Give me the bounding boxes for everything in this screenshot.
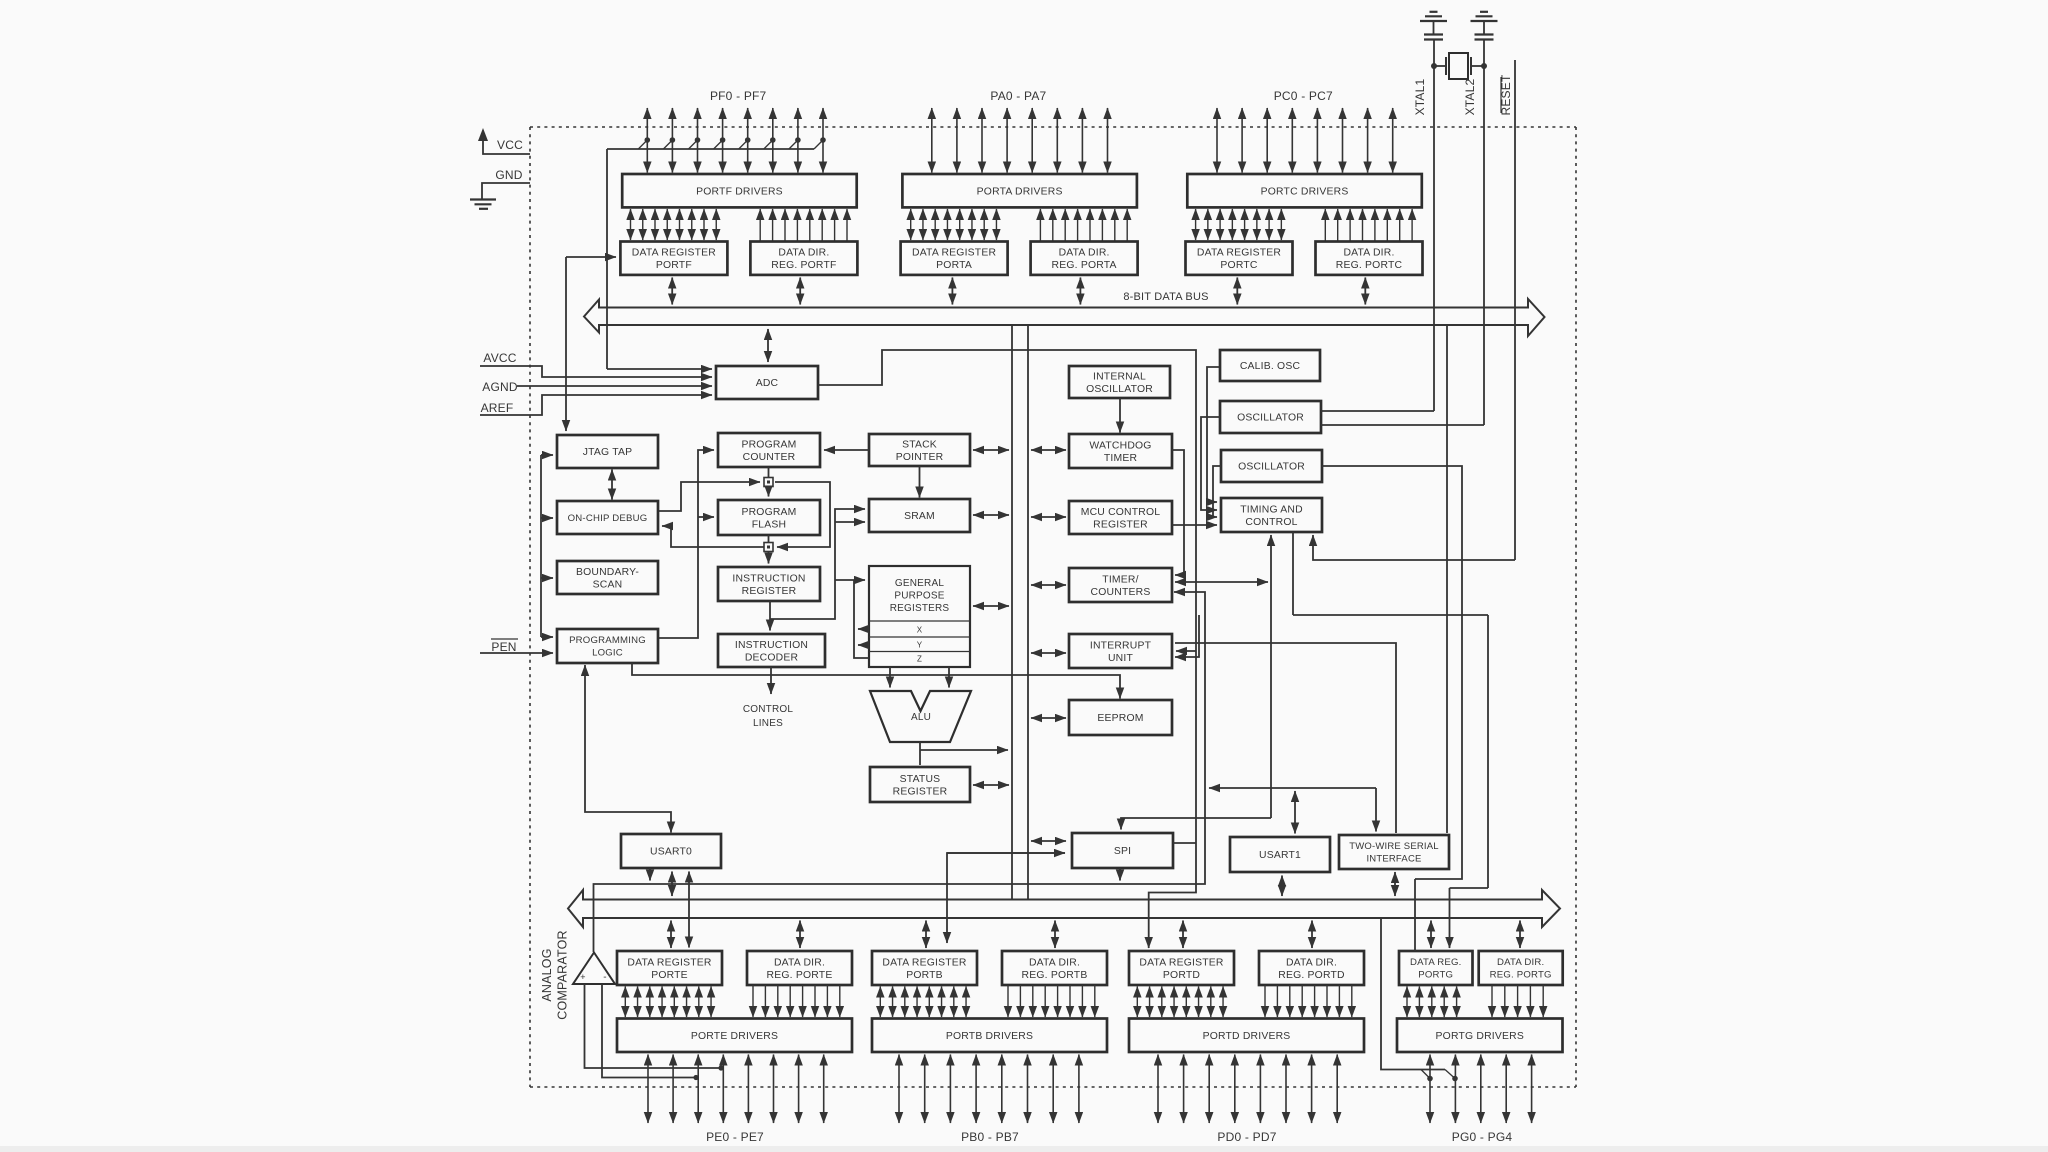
svg-text:TIMER: TIMER [1104,453,1138,464]
wire timing control to port D register [1293,615,1488,888]
PORTD dir register bus arrow [1311,921,1313,949]
label PD0 - PD7 [1217,1130,1276,1144]
svg-text:PORTC DRIVERS: PORTC DRIVERS [1261,186,1349,197]
wire calib osc to timing and control [1207,367,1219,502]
wire SPI right stub [1173,842,1196,844]
PORTF direction register arrows [760,209,847,242]
svg-text:GND: GND [495,168,522,182]
comparator input taps to PE pins [585,984,724,1080]
vertical bus link right [1027,325,1029,899]
svg-text:PORTD DRIVERS: PORTD DRIVERS [1203,1031,1291,1042]
svg-text:PURPOSE: PURPOSE [894,591,944,602]
svg-text:AVCC: AVCC [483,351,516,365]
svg-text:DATA DIR.: DATA DIR. [1059,248,1110,259]
wire instruction decoder to control lines [770,667,772,694]
svg-text:ADC: ADC [756,378,779,389]
svg-text:ALU: ALU [911,712,931,723]
wire timing to portG drivers tap [1381,918,1458,1081]
wire to portG register [1450,888,1489,948]
SPI [1072,833,1173,868]
PORTB direction register arrows [1008,985,1095,1017]
svg-text:REGISTER: REGISTER [742,586,797,597]
svg-text:USART0: USART0 [650,847,692,858]
label AGND [482,380,518,394]
svg-text:DATA DIR.: DATA DIR. [1343,248,1394,259]
INTERRUPT UNIT [1069,634,1172,668]
svg-text:REGISTER: REGISTER [893,786,948,797]
PORTE data register bus arrow [670,921,672,949]
PROGRAM FLASH [718,500,820,535]
TWO-WIRE SERIAL INTERFACE [1339,835,1449,869]
wire PEN to programming logic [480,652,553,654]
svg-text:DATA DIR.: DATA DIR. [774,957,825,968]
bus arrow MCU control register [1031,516,1066,518]
svg-text:PORTF DRIVERS: PORTF DRIVERS [696,186,783,197]
SRAM [869,499,970,532]
PORTC pin arrows PC0 - PC7 [1217,108,1393,173]
svg-text:PORTA: PORTA [936,260,972,271]
wire PC to latch1 [768,467,770,477]
wire timing and control down [1292,532,1294,615]
svg-text:COMPARATOR: COMPARATOR [556,930,570,1020]
svg-text:EEPROM: EEPROM [1097,713,1143,724]
wire programming logic to USART0 [585,665,671,833]
wire ADC channel tap on PF pins [607,137,826,369]
PORTD data register bus arrow [1182,921,1184,949]
PORTG data register bus arrow [1430,921,1432,949]
PROGRAMMING LOGIC [557,629,658,663]
WATCHDOG TIMER [1069,434,1172,468]
svg-text:Z: Z [917,655,922,664]
svg-text:FLASH: FLASH [752,519,787,530]
JTAG TAP U-jtag [557,435,658,468]
DATA REGISTER PORTE [617,951,722,985]
DATA DIR. REG. PORTG [1479,951,1563,985]
svg-text:REG. PORTG: REG. PORTG [1490,970,1552,981]
wire USART0 to port E register [688,872,690,948]
svg-text:DATA DIR.: DATA DIR. [1029,957,1080,968]
DATA REGISTER PORTF [620,242,727,275]
wire GPR to ALU b [948,667,950,688]
crystal Y1 [1431,53,1487,79]
wire IR to SRAM and registers [770,509,865,619]
svg-text:TWO-WIRE SERIAL: TWO-WIRE SERIAL [1349,841,1439,852]
bus arrow ADC [767,329,769,362]
PORTF pin arrows PF0 - PF7 [647,108,823,173]
wire SPI to port B register [947,853,1065,943]
label AREF [481,401,514,415]
label PE0 - PE7 [706,1130,764,1144]
svg-text:-: - [603,972,607,983]
USART0 [621,834,721,868]
wire reset to timing and control [1313,535,1515,560]
svg-text:INSTRUCTION: INSTRUCTION [735,640,808,651]
PORTA DRIVERS [902,174,1137,207]
PORTC DRIVERS [1187,174,1422,207]
svg-text:PD0 - PD7: PD0 - PD7 [1217,1130,1276,1144]
svg-text:INSTRUCTION: INSTRUCTION [732,573,805,584]
svg-text:GENERAL: GENERAL [895,578,944,589]
svg-text:PORTB DRIVERS: PORTB DRIVERS [946,1031,1033,1042]
svg-text:PROGRAM: PROGRAM [741,507,796,518]
label XTAL1 [1413,78,1427,115]
svg-text:LINES: LINES [753,718,783,729]
svg-text:PC0 - PC7: PC0 - PC7 [1274,89,1333,103]
label VCC [497,138,523,152]
PORTB data register arrows [880,987,966,1018]
PORTA direction register arrows [1040,209,1127,242]
svg-text:PB0 - PB7: PB0 - PB7 [961,1130,1019,1144]
wire GPR to ALU a [889,667,891,688]
svg-text:USART1: USART1 [1259,850,1301,861]
BOUNDARY-SCAN [557,561,658,594]
wire X Y Z register pointers [854,580,869,658]
svg-text:DATA DIR.: DATA DIR. [1497,957,1544,968]
svg-text:PROGRAMMING: PROGRAMMING [569,635,646,646]
svg-text:X: X [917,626,923,635]
MCU CONTROL REGISTER [1069,501,1172,534]
wire programming logic to PC and flash [659,450,714,638]
wire USART0 to comparator net [649,868,651,881]
wire interrupt to two-wire/usart1 loop [1175,643,1396,833]
svg-text:Y: Y [917,641,923,650]
ADC [716,366,818,399]
DATA REGISTER PORTB [872,951,977,985]
svg-text:BOUNDARY-: BOUNDARY- [576,567,639,578]
latch square 1 [764,478,773,487]
svg-text:PORTF: PORTF [656,260,692,271]
PORTE dir register bus arrow [799,921,801,949]
svg-text:+: + [580,972,585,982]
wire oscillator2 to TOSC portG [1322,466,1462,951]
svg-text:AREF: AREF [481,401,514,415]
DATA DIR. REG. PORTA [1031,242,1138,275]
PORTD pin arrows PD0 - PD7 [1158,1055,1337,1124]
wire AREF to ADC [480,395,712,415]
ALU [870,691,971,742]
RESET pin with overline [1499,74,1513,115]
svg-text:OSCILLATOR: OSCILLATOR [1237,413,1304,424]
wire ALU result to bus [920,749,1008,751]
svg-text:PORTA DRIVERS: PORTA DRIVERS [977,186,1063,197]
wire programming logic to EEPROM [632,663,1120,699]
svg-text:PORTE: PORTE [651,970,688,981]
PORTE pin arrows PE0 - PE7 [648,1055,824,1124]
label ANALOG [540,948,554,1001]
XTAL2 capacitor and ground [1471,12,1498,66]
svg-text:8-BIT DATA BUS: 8-BIT DATA BUS [1123,291,1208,303]
PORTA pin arrows PA0 - PA7 [932,108,1108,173]
bus arrow two-wire bottom [1394,872,1396,896]
svg-text:PROGRAM: PROGRAM [741,439,796,450]
PORTB DRIVERS [872,1019,1107,1053]
PORTB data register bus arrow [925,921,927,949]
wire bus to two-wire interface [1446,325,1448,833]
bus arrow USART1 top [1294,791,1296,834]
PORTE DRIVERS [617,1019,852,1053]
OSCILLATOR U-osc2 [1221,450,1322,482]
wire JTAG to on-chip debug [611,470,613,500]
PORTF data register bus arrow [671,278,673,305]
PORTG pin arrows PG0 - PG4 [1430,1055,1532,1124]
label PA0 - PA7 [990,89,1046,103]
label CONTROL [743,704,794,715]
GENERAL PURPOSE REGISTERS with X Y Z [869,566,970,667]
PORTD data register arrows [1137,987,1223,1018]
svg-text:PORTG: PORTG [1418,970,1453,981]
svg-text:DATA REGISTER: DATA REGISTER [882,957,966,968]
bus arrow interrupt unit [1031,652,1066,654]
svg-text:REG. PORTC: REG. PORTC [1336,260,1403,271]
PORTC direction register arrows [1325,209,1412,242]
svg-text:DATA REGISTER: DATA REGISTER [1197,248,1281,259]
wire SPI to comparator net [1119,868,1121,881]
svg-text:WATCHDOG: WATCHDOG [1089,440,1151,451]
svg-text:CALIB. OSC: CALIB. OSC [1240,361,1301,372]
svg-text:DATA REGISTER: DATA REGISTER [627,957,711,968]
label LINES [753,718,783,729]
PORTF data register arrows [631,209,717,240]
svg-text:DATA DIR.: DATA DIR. [778,248,829,259]
svg-text:CONTROL: CONTROL [1245,517,1297,528]
PORTE direction register arrows [753,985,840,1017]
PORTF DRIVERS [622,174,857,207]
PORTA data register arrows [911,209,997,240]
wire flash to latch2 [768,535,770,543]
svg-text:UNIT: UNIT [1108,653,1133,664]
PORTG DRIVERS [1397,1019,1563,1053]
svg-text:INTERNAL: INTERNAL [1093,371,1146,382]
DATA REGISTER PORTC [1186,242,1293,275]
wire AVCC to ADC [480,366,712,377]
bus arrow GPR [973,605,1009,607]
wire down to JTAG TAP [565,257,567,431]
wire XTAL2 to oscillator [1483,66,1485,425]
wire oscillator1 to timing and control [1201,417,1220,510]
svg-text:PORTG DRIVERS: PORTG DRIVERS [1436,1031,1524,1042]
TIMING AND CONTROL [1221,498,1322,532]
PORTC dir register bus arrow [1364,278,1366,305]
PORTG direction register arrows [1492,985,1543,1017]
wire ALU to status register [919,742,921,765]
svg-text:REG. PORTD: REG. PORTD [1278,970,1344,981]
svg-text:TIMER/: TIMER/ [1102,574,1138,585]
ON-CHIP DEBUG [557,501,658,534]
PORTB dir register bus arrow [1054,921,1056,949]
wire stack pointer to program counter [824,449,869,451]
svg-text:INTERFACE: INTERFACE [1366,854,1421,865]
wire on-chip debug to latches loop [659,482,830,547]
INSTRUCTION REGISTER [718,567,820,601]
PEN pin with overline [491,639,518,654]
svg-text:REG. PORTE: REG. PORTE [767,970,833,981]
svg-text:OSCILLATOR: OSCILLATOR [1086,384,1153,395]
PORTG dir register bus arrow [1519,921,1521,949]
label XTAL2 [1463,78,1477,115]
svg-text:PG0 - PG4: PG0 - PG4 [1452,1130,1513,1144]
svg-text:POINTER: POINTER [896,452,944,463]
svg-text:INTERRUPT: INTERRUPT [1090,640,1152,651]
svg-text:COUNTER: COUNTER [743,452,796,463]
svg-text:REG. PORTA: REG. PORTA [1052,260,1117,271]
EEPROM [1069,700,1172,735]
DATA REGISTER PORTD [1129,951,1234,985]
svg-text:DATA REGISTER: DATA REGISTER [632,248,716,259]
PORTA dir register bus arrow [1079,278,1081,305]
DATA REG. PORTG [1399,951,1473,985]
USART1 [1230,837,1330,872]
chip boundary dashed border [530,127,1576,1087]
bus arrow EEPROM [1031,717,1066,719]
svg-text:STACK: STACK [902,439,937,450]
DATA DIR. REG. PORTE [747,951,852,985]
PORTA data register bus arrow [951,278,953,305]
svg-text:PORTC: PORTC [1220,260,1257,271]
wire to two-wire interface [1375,788,1377,832]
svg-text:DATA REGISTER: DATA REGISTER [912,248,996,259]
CALIB. OSC [1220,350,1320,381]
wire latch1 to program flash [768,487,770,497]
svg-text:PA0 - PA7: PA0 - PA7 [990,89,1046,103]
INSTRUCTION DECODER [718,634,825,667]
vertical bus link left [1011,325,1013,899]
label 8-BIT DATA BUS [1123,291,1208,303]
label PG0 - PG4 [1452,1130,1513,1144]
wire ADC to interrupt/SPI rail [818,350,1196,948]
wire XTAL1 to oscillator [1433,66,1435,411]
svg-text:SPI: SPI [1114,846,1131,857]
svg-text:REGISTERS: REGISTERS [890,603,950,614]
bus arrow USART0 [671,872,673,897]
wire JTAG chain left rail [541,455,553,637]
svg-text:OSCILLATOR: OSCILLATOR [1238,462,1305,473]
svg-text:ANALOG: ANALOG [540,948,554,1001]
svg-text:MCU CONTROL: MCU CONTROL [1081,507,1161,518]
latch square 2 [764,543,773,552]
PORTD direction register arrows [1265,985,1352,1017]
wire AGND to ADC [517,385,712,387]
bus arrow watchdog timer [1031,449,1066,451]
svg-text:PF0 - PF7: PF0 - PF7 [710,89,767,103]
PORTE data register arrows [625,987,711,1018]
svg-text:PORTB: PORTB [906,970,943,981]
label PB0 - PB7 [961,1130,1019,1144]
wire RESET [1514,60,1516,560]
DATA REGISTER PORTA [901,242,1008,275]
svg-text:DATA REGISTER: DATA REGISTER [1139,957,1223,968]
svg-text:XTAL1: XTAL1 [1413,78,1427,115]
svg-text:AGND: AGND [482,380,518,394]
wire timing and control to SPI [1121,535,1271,830]
wire oscillator2 to timing and control [1213,466,1221,517]
svg-text:REG. PORTB: REG. PORTB [1022,970,1088,981]
bus arrow timer/counters [1031,584,1066,586]
wire MCU control to timing and control [1172,524,1217,526]
wire watchdog to timer/counters rail [1172,450,1184,575]
TIMER/COUNTERS [1069,568,1172,602]
VCC pin symbol [478,128,530,154]
svg-text:SRAM: SRAM [904,511,935,522]
INTERNAL OSCILLATOR [1069,366,1170,398]
svg-text:PORTE DRIVERS: PORTE DRIVERS [691,1031,778,1042]
STATUS REGISTER [870,767,970,802]
svg-text:REG. PORTF: REG. PORTF [771,260,836,271]
DATA DIR. REG. PORTD [1259,951,1364,985]
wire oscillator1 to XTAL1 [1321,410,1434,412]
wire rail to interrupt a [1176,650,1196,652]
svg-text:PORTD: PORTD [1163,970,1200,981]
PROGRAM COUNTER [718,433,820,467]
GND pin and ground symbol [470,183,530,209]
PORTD DRIVERS [1129,1019,1364,1053]
svg-text:DATA DIR.: DATA DIR. [1286,957,1337,968]
svg-text:CONTROL: CONTROL [743,704,794,715]
svg-text:PE0 - PE7: PE0 - PE7 [706,1130,764,1144]
label COMPARATOR [556,930,570,1020]
PORTF dir register bus arrow [799,278,801,305]
PORTC data register arrows [1196,209,1282,240]
svg-text:JTAG TAP: JTAG TAP [583,447,633,458]
svg-text:STATUS: STATUS [900,774,941,785]
svg-text:XTAL2: XTAL2 [1463,78,1477,115]
analog comparator [573,953,615,985]
wire latch2 to instruction register [768,552,770,564]
bus arrow status register [973,784,1009,786]
svg-text:COUNTERS: COUNTERS [1091,587,1151,598]
PORTC data register bus arrow [1236,278,1238,305]
wire oscillator1 to XTAL2 [1321,424,1484,426]
wire internal oscillator to watchdog [1119,398,1121,433]
label PF0 - PF7 [710,89,767,103]
DATA DIR. REG. PORTC [1316,242,1423,275]
svg-text:LOGIC: LOGIC [592,648,623,659]
svg-text:ON-CHIP DEBUG: ON-CHIP DEBUG [568,513,648,524]
label GND [495,168,522,182]
wire comparator output [594,592,1206,952]
wire port F register to JTAG [566,256,616,258]
XTAL1 capacitor and ground [1420,12,1447,66]
svg-text:PEN: PEN [491,640,516,654]
data bus (bottom) [568,890,1560,927]
label PC0 - PC7 [1274,89,1333,103]
label AVCC [483,351,516,365]
bus arrow SPI [1031,840,1066,842]
svg-text:DECODER: DECODER [745,652,799,663]
svg-text:VCC: VCC [497,138,523,152]
PORTG data register arrows [1407,987,1457,1018]
svg-text:REGISTER: REGISTER [1093,519,1148,530]
svg-text:SCAN: SCAN [593,579,623,590]
DATA DIR. REG. PORTB [1002,951,1107,985]
DATA DIR. REG. PORTF [750,242,857,275]
STACK POINTER [869,434,970,466]
svg-text:TIMING AND: TIMING AND [1240,504,1303,515]
svg-text:DATA REG.: DATA REG. [1410,957,1462,968]
8-bit data bus (top) [584,299,1545,336]
wire timer/counters to timing rail [1175,581,1268,583]
bus arrow SRAM [973,514,1009,516]
wire stack pointer to SRAM [919,466,921,498]
bottom screen strip [0,1146,2048,1152]
PORTB pin arrows PB0 - PB7 [899,1055,1079,1124]
OSCILLATOR U-osc1 [1220,401,1321,433]
wire interrupt右 c [1175,615,1199,657]
bus arrow USART1 bottom [1281,876,1283,897]
bus arrow stack pointer [973,449,1009,451]
wire IR to instruction decoder [769,601,771,631]
